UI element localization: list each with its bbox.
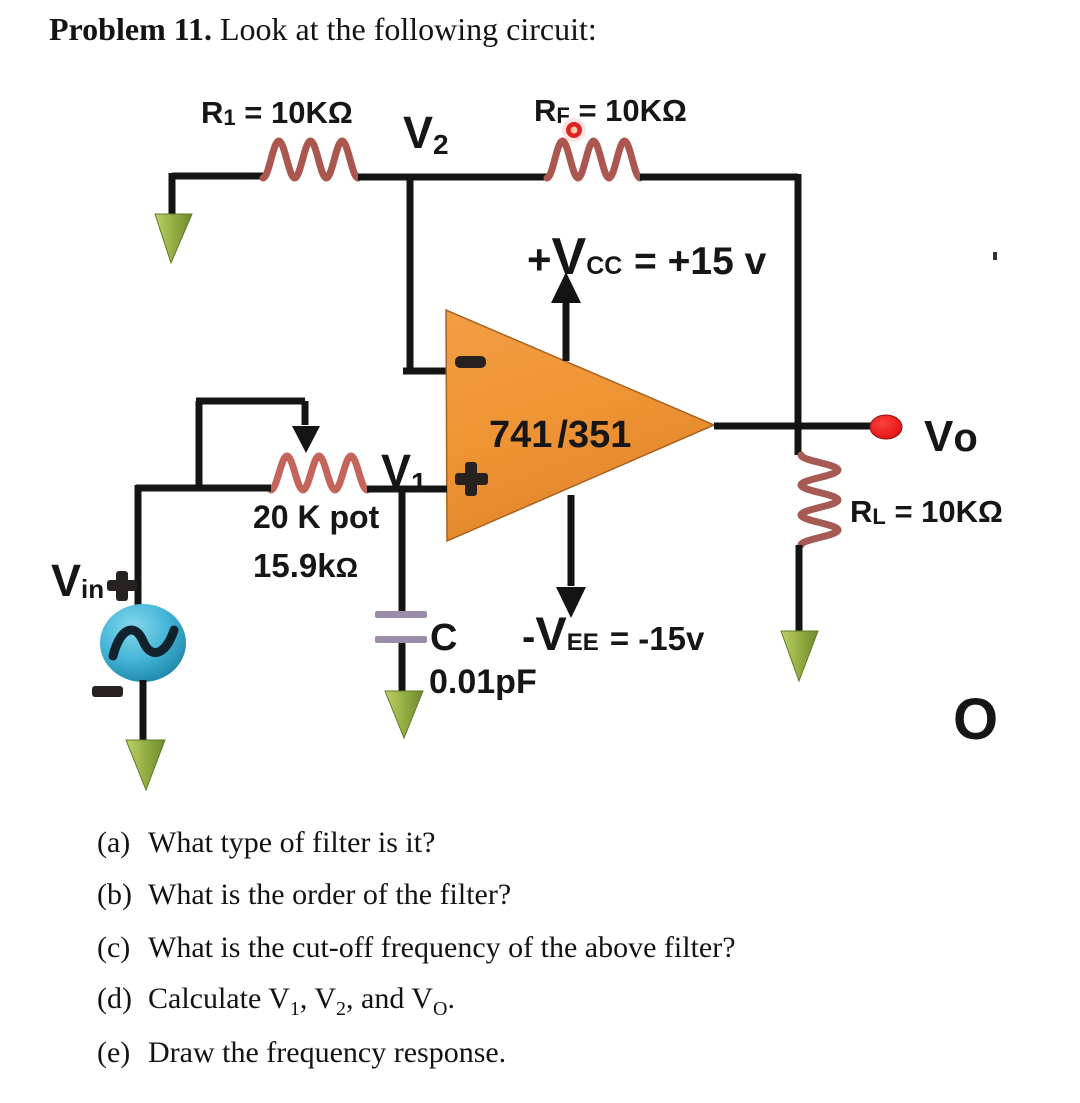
svg-text:741/351: 741/351: [489, 414, 631, 456]
wire capacitor to ground: [399, 643, 406, 695]
svg-text:0.01pF: 0.01pF: [429, 663, 537, 701]
wire V1 node down to capacitor: [399, 489, 406, 612]
op-amp minus input symbol: [455, 356, 486, 368]
ground G2 (below source): [126, 740, 165, 790]
svg-text:15.9kΩ: 15.9kΩ: [253, 547, 358, 584]
svg-text:Vo: Vo: [924, 412, 978, 461]
svg-text:Vin: Vin: [51, 555, 104, 606]
svg-text:C: C: [430, 617, 457, 659]
label Vin: [51, 555, 104, 606]
capacitor C plates: [375, 611, 427, 643]
potentiometer 20K: [271, 456, 367, 490]
wire main to pot (left): [136, 485, 271, 492]
wire RF to right corner: [640, 174, 798, 181]
op-amp U1 triangle: [446, 310, 714, 541]
svg-text:RL = 10KΩ: RL = 10KΩ: [850, 494, 1003, 529]
label 20 K pot: [253, 499, 380, 535]
pot top loop wire: [196, 401, 305, 488]
wire V2 node down to inverting input: [403, 176, 447, 371]
ground G1 (top-left): [155, 214, 192, 263]
svg-text:+VCC = +15 v: +VCC = +15 v: [527, 228, 767, 286]
letter O annotation: [953, 687, 998, 752]
op-amp plus input symbol: [455, 462, 488, 496]
label -VEE = -15v: [522, 607, 705, 660]
question (c): [97, 931, 736, 965]
wire pot to non-inverting input (node V1): [367, 486, 447, 493]
AC source Vin circle: [100, 604, 186, 682]
label 0.01pF: [429, 663, 537, 701]
ground G4 (below RL): [781, 631, 818, 681]
output node red ellipse: [870, 415, 902, 439]
svg-text:V2: V2: [403, 107, 449, 160]
wire right vertical down to output node and RL: [795, 174, 802, 455]
question (b): [97, 878, 511, 912]
label +Vcc = +15 v: [527, 228, 767, 286]
+Vcc arrow: [551, 272, 581, 361]
question (a): [97, 826, 435, 860]
wire source to ground: [140, 680, 147, 740]
svg-text:20 K pot: 20 K pot: [253, 499, 380, 535]
svg-text:R1 = 10KΩ: R1 = 10KΩ: [201, 95, 353, 130]
wire input top-left horizontal: [172, 173, 263, 180]
op-amp label 741/351: [489, 414, 631, 456]
svg-text:O: O: [953, 687, 998, 752]
wire main left corner down to source: [135, 485, 142, 606]
label R1 = 10KΩ: [201, 95, 353, 130]
wire RL to ground: [796, 545, 803, 631]
label 15.9kΩ: [253, 547, 358, 584]
resistor R1: [263, 141, 358, 178]
red marker dot on RF: [562, 118, 586, 142]
tiny speck top right: [993, 252, 997, 260]
wire stub down to ground G1: [169, 173, 176, 214]
source minus symbol: [92, 686, 123, 697]
-VEE arrow: [556, 495, 586, 618]
wire op-amp output to Vo node: [714, 423, 871, 430]
resistor RL: [801, 455, 838, 545]
svg-text:RF = 10KΩ: RF = 10KΩ: [534, 93, 687, 128]
pot wiper arrow head: [292, 426, 320, 453]
ground G3 (below capacitor): [385, 691, 423, 738]
title: [49, 11, 597, 48]
svg-text:-VEE = -15v: -VEE = -15v: [522, 607, 705, 660]
node V2 label: [403, 107, 449, 160]
label C: [430, 617, 457, 659]
label RF = 10KΩ: [534, 93, 687, 128]
label RL = 10KΩ: [850, 494, 1003, 529]
node V1 label: [381, 445, 427, 498]
source plus symbol: [107, 571, 137, 601]
wire R1 to RF (through node V2): [358, 174, 547, 181]
resistor RF: [547, 141, 640, 178]
question (d): [97, 982, 455, 1021]
question (e): [97, 1036, 506, 1070]
label Vo: [924, 412, 978, 461]
